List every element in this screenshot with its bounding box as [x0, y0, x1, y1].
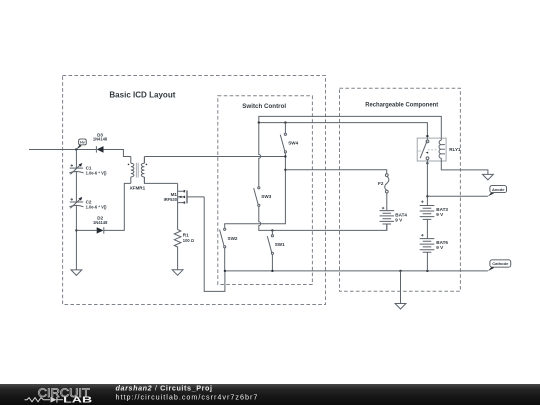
- node anode junction: [426, 195, 428, 197]
- footer bar: [0, 384, 540, 405]
- node SW1 top: [271, 229, 273, 231]
- wire BAT6 bottom: [426, 252, 428, 271]
- wire BAT4 bottom: [386, 224, 388, 230]
- svg-text:Switch Control: Switch Control: [242, 103, 286, 110]
- svg-text:100 Ω: 100 Ω: [183, 238, 195, 243]
- node rail SW2: [224, 270, 226, 272]
- wire transformer secondary top to SW4 node: [144, 157, 285, 164]
- wire C2 down to ground: [75, 205, 77, 269]
- capacitor C2: [69, 197, 107, 209]
- fuse F2: [378, 174, 389, 193]
- wire SW2 bottom pin: [224, 248, 226, 271]
- flag Cathode: [488, 260, 511, 271]
- svg-text:1N4148: 1N4148: [93, 137, 108, 142]
- wire SW4 bottom chain down to SW2: [225, 153, 286, 228]
- ground (relay coil): [483, 174, 494, 180]
- node relay switch top: [426, 135, 428, 137]
- ground (below rechargeable): [395, 304, 406, 310]
- switch SW2: [220, 228, 238, 248]
- svg-text:Hv: Hv: [80, 141, 85, 145]
- svg-text:Rechargeable Component: Rechargeable Component: [365, 102, 438, 109]
- svg-text:1.0e-6 * V(): 1.0e-6 * V(): [86, 204, 108, 209]
- wire rail to ground: [400, 271, 402, 304]
- switch SW4: [280, 133, 298, 153]
- svg-text:IRF530: IRF530: [164, 197, 178, 202]
- box Switch Control: [218, 96, 313, 285]
- svg-text:SW4: SW4: [288, 140, 298, 145]
- diode D3 1N4148: [93, 132, 108, 152]
- node rail ground: [399, 270, 401, 272]
- svg-text:SW1: SW1: [275, 242, 285, 247]
- svg-text:http://circuitlab.com/csrr4vr7: http://circuitlab.com/csrr4vr7z6br7: [116, 392, 259, 401]
- wire SW3 bottom to BAT4 wire: [259, 206, 387, 230]
- wire SW1 bottom pin: [271, 254, 273, 271]
- wire M1 gate loop to bottom rail: [204, 197, 225, 292]
- battery BAT3 9V: [420, 201, 449, 220]
- node SW4-xfmr junction: [284, 155, 286, 157]
- node SW4-F2 junction: [284, 169, 286, 171]
- svg-text:9 V: 9 V: [395, 218, 403, 223]
- node D2 anode junction: [75, 229, 77, 231]
- svg-text:RLY1: RLY1: [449, 147, 461, 152]
- relay RLY1: [417, 138, 461, 161]
- transformer XFMR1: [128, 157, 148, 191]
- flag Hv: [76, 139, 86, 150]
- node rail SW1: [271, 270, 273, 272]
- ground (R1): [172, 270, 183, 276]
- wire BAT3 to BAT6: [426, 219, 428, 238]
- wire transformer secondary bottom to M1 drain: [144, 177, 177, 183]
- node relay switch bottom: [426, 162, 428, 164]
- wire top rail 1 (to relay coil): [259, 116, 442, 138]
- svg-text:LAB: LAB: [63, 395, 92, 405]
- transistor M1 IRF530: [164, 183, 205, 229]
- switch SW3: [254, 187, 272, 207]
- svg-text:Basic ICD Layout: Basic ICD Layout: [109, 90, 175, 99]
- svg-text:1.0e-6 * V(): 1.0e-6 * V(): [86, 170, 108, 175]
- wire top rail 2 (to relay switch): [259, 123, 428, 140]
- svg-text:9 V: 9 V: [436, 212, 444, 217]
- wire Hv node down to C1: [75, 150, 77, 169]
- svg-text:XFMR1: XFMR1: [130, 185, 146, 190]
- node SW4 top: [284, 121, 286, 123]
- wire anode: [427, 195, 488, 197]
- svg-text:F2: F2: [378, 181, 384, 186]
- node rail BAT6: [426, 270, 428, 272]
- box Rechargeable Component: [340, 88, 461, 291]
- wire junction to D2: [76, 229, 96, 231]
- diode D2 1N4148: [93, 216, 108, 234]
- wire F2 to BAT4: [386, 193, 388, 211]
- svg-text:1N4148: 1N4148: [93, 220, 108, 225]
- svg-text:SW3: SW3: [261, 194, 271, 199]
- svg-text:Cathode: Cathode: [492, 261, 509, 266]
- ground (left chain): [71, 270, 82, 276]
- battery BAT6 9V: [420, 234, 449, 252]
- svg-text:9 V: 9 V: [436, 245, 444, 250]
- wire D3 to transformer primary top: [104, 150, 131, 157]
- wire C1 to C2: [75, 171, 77, 202]
- wire SW4 top pin: [284, 123, 286, 134]
- wire SW1 top pin: [271, 230, 273, 234]
- node Hv junction: [75, 148, 77, 150]
- capacitor C1: [69, 163, 107, 175]
- wire relay coil bottom to ground: [441, 161, 488, 174]
- wire bottom rail: [225, 270, 488, 272]
- switch SW1: [267, 235, 285, 255]
- box Basic ICD Layout: [63, 76, 326, 305]
- node rail2 left: [258, 121, 260, 123]
- svg-text:Anode: Anode: [492, 187, 505, 192]
- wire SW3 vertical with hops: [259, 123, 261, 187]
- flag Anode: [488, 186, 507, 197]
- wire SW4 junction to F2: [285, 170, 386, 174]
- svg-text:darshan2 / Circuits_Proj: darshan2 / Circuits_Proj: [116, 383, 213, 392]
- wire D2 to transformer primary bottom: [104, 183, 131, 230]
- svg-text:SW2: SW2: [228, 236, 238, 241]
- battery BAT4 9V: [380, 207, 408, 224]
- wire input left: [29, 149, 96, 151]
- resistor R1 100: [174, 230, 194, 270]
- wire relay switch bottom to BAT3: [426, 160, 428, 206]
- logo zigzag and diode: [25, 397, 64, 403]
